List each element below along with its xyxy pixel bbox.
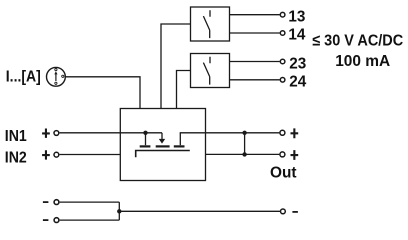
plus sign output lower (291, 150, 299, 160)
relay contact K2 switch (NO contact) (203, 57, 210, 85)
wire from K2 box left to electronic-switch box top (177, 71, 191, 109)
plus sign output upper (291, 128, 299, 138)
minus sign lower left (43, 219, 49, 221)
MOSFET channel bar middle (156, 145, 170, 147)
svg-text:23: 23 (289, 55, 306, 72)
terminal 13 (280, 12, 285, 17)
MOSFET body arrow lead (161, 133, 163, 140)
MOSFET channel bar left (140, 145, 151, 147)
terminal minus upper left (54, 200, 59, 205)
terminal minus lower left (54, 218, 59, 223)
svg-text:I...[A]: I...[A] (6, 69, 41, 86)
terminal IN1 (54, 131, 59, 136)
MOSFET drain lead to channel (145, 133, 147, 145)
junction dot minus rail (117, 209, 121, 213)
svg-text:≤ 30 V AC/DC: ≤ 30 V AC/DC (312, 32, 403, 49)
relay contact K1 switch (NO contact) (203, 10, 210, 38)
wire box to output terminal + (lower) (206, 153, 280, 155)
wire K2 to terminal 23 (230, 61, 280, 63)
wire joining the two + output lines (244, 133, 246, 155)
junction dot output upper (242, 131, 246, 135)
dial max mark (62, 75, 64, 77)
wire K1 to terminal 13 (230, 14, 280, 16)
svg-text:IN2: IN2 (5, 150, 27, 167)
junction dot at MOSFET drain (143, 131, 147, 135)
relay contact K2 box (191, 54, 230, 88)
wire dial to electronic-switch box top (65, 77, 140, 109)
minus sign right (292, 211, 298, 213)
terminal + lower (280, 152, 285, 157)
dial pointer arrow (55, 74, 57, 81)
wire IN2 terminal to box (60, 154, 121, 156)
plus sign IN1 (42, 129, 50, 138)
wire K2 to terminal 24 (230, 79, 280, 81)
wire minus terminal lower (60, 219, 120, 221)
wire from K1 box left to electronic-switch box top (161, 24, 191, 109)
svg-text:13: 13 (288, 8, 305, 25)
wire minus terminal upper (60, 201, 120, 203)
terminal IN2 (54, 152, 59, 157)
wire box to output terminal + (upper) (206, 132, 280, 134)
junction dot output lower (242, 152, 246, 156)
minus sign upper left (43, 201, 49, 203)
terminal minus right (281, 209, 286, 214)
wire minus rail to right terminal (119, 210, 280, 212)
svg-text:14: 14 (288, 27, 305, 44)
terminal 23 (280, 59, 285, 64)
dial pointer arrowhead (54, 71, 57, 74)
dial min mark (55, 69, 57, 71)
MOSFET channel bar right (174, 145, 185, 147)
wire K1 to terminal 14 (230, 32, 280, 34)
relay contact K1 box (191, 7, 230, 41)
current setpoint dial circle (47, 67, 66, 86)
electronic switch (MOSFET output) box U1 (120, 109, 205, 181)
svg-text:24: 24 (289, 74, 306, 91)
MOSFET gate line with stub (136, 151, 190, 158)
plus sign IN2 (42, 150, 50, 159)
svg-text:100 mA: 100 mA (335, 53, 390, 70)
wire IN1 terminal to box (60, 132, 121, 134)
terminal 14 (280, 31, 285, 36)
terminal 24 (280, 78, 285, 83)
MOSFET source wire to output side (180, 133, 205, 145)
svg-text:Out: Out (270, 165, 297, 182)
dial mid mark (55, 82, 57, 84)
MOSFET drain wire from IN side (120, 132, 162, 134)
wire joining minus terminals (118, 202, 120, 220)
svg-text:IN1: IN1 (5, 128, 27, 145)
MOSFET body arrowhead (159, 139, 165, 144)
terminal + upper (280, 130, 285, 135)
